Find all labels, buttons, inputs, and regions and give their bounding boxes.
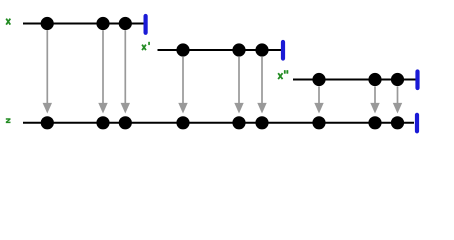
dot z5 bbox=[232, 116, 245, 129]
timeline z bbox=[23, 122, 414, 124]
dot z9 bbox=[391, 116, 404, 129]
timeline x' bbox=[158, 49, 283, 51]
arrow from x'' dot3 to z bbox=[393, 87, 402, 114]
label x'' bbox=[279, 70, 289, 78]
dot z7 bbox=[312, 116, 325, 129]
end marker of x'' bbox=[415, 72, 419, 89]
dot x1 bbox=[41, 17, 54, 30]
dot z4 bbox=[176, 116, 189, 129]
timeline x bbox=[23, 23, 145, 25]
timeline x'' bbox=[293, 79, 417, 81]
arrow from x dot1 to z bbox=[43, 30, 52, 113]
dot z1 bbox=[41, 116, 54, 129]
dot x'3 bbox=[255, 43, 268, 56]
arrow from x' dot1 to z bbox=[178, 57, 187, 114]
dot x''3 bbox=[391, 73, 404, 86]
dot x'2 bbox=[232, 43, 245, 56]
arrow from x'' dot2 to z bbox=[370, 87, 379, 114]
dot x''2 bbox=[368, 73, 381, 86]
end marker of z bbox=[415, 115, 419, 132]
label z bbox=[6, 118, 11, 123]
label x' bbox=[143, 42, 150, 50]
dot x'1 bbox=[176, 43, 189, 56]
end marker of x bbox=[144, 16, 148, 33]
label x bbox=[7, 19, 10, 24]
dot z3 bbox=[119, 116, 132, 129]
arrow from x' dot2 to z bbox=[234, 57, 243, 114]
arrow from x dot3 to z bbox=[121, 30, 130, 113]
dot z2 bbox=[96, 116, 109, 129]
arrow from x' dot3 to z bbox=[257, 57, 266, 114]
arrow from x'' dot1 to z bbox=[314, 87, 323, 114]
dot z8 bbox=[368, 116, 381, 129]
arrow from x dot2 to z bbox=[98, 30, 107, 113]
dot x2 bbox=[96, 17, 109, 30]
dot x''1 bbox=[312, 73, 325, 86]
dot x3 bbox=[119, 17, 132, 30]
dot z6 bbox=[255, 116, 268, 129]
end marker of x' bbox=[281, 42, 285, 59]
